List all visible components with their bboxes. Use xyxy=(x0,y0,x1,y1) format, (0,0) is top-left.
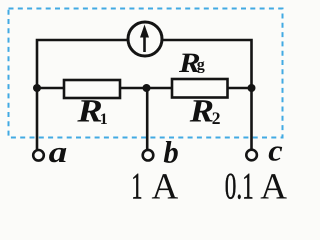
svg-text:b: b xyxy=(163,135,178,170)
svg-text:A: A xyxy=(152,167,179,208)
svg-text:0.1: 0.1 xyxy=(225,167,254,208)
svg-text:2: 2 xyxy=(212,108,221,128)
svg-text:R: R xyxy=(189,94,214,130)
svg-text:g: g xyxy=(197,57,205,74)
svg-text:A: A xyxy=(260,167,287,208)
svg-text:c: c xyxy=(268,135,282,168)
svg-text:a: a xyxy=(49,136,68,169)
svg-text:1: 1 xyxy=(131,167,142,208)
svg-text:1: 1 xyxy=(100,111,108,128)
